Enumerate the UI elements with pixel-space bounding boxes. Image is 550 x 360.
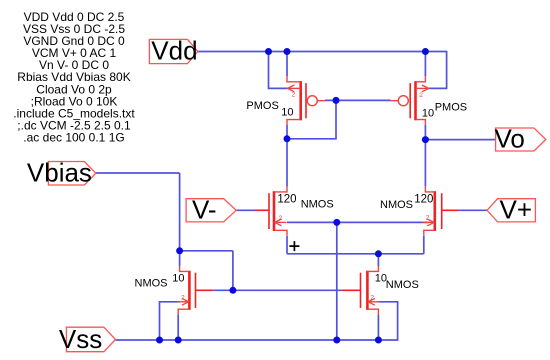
wire M6 bulk branch to Vss rail	[379, 302, 398, 341]
transistor M2 (NMOS 120 right) gate bar	[441, 193, 443, 229]
transistor M4 (PMOS 10 right) channel bar	[414, 81, 417, 120]
transistor M1 (NMOS 120 left) bulk lead	[275, 221, 287, 223]
svg-text:PMOS: PMOS	[246, 100, 278, 112]
wire tail drop to M6 drain	[377, 254, 379, 266]
transistor M1 (NMOS 120 left) gate lead	[255, 209, 269, 211]
junction bulk bus / Vss drop	[333, 219, 340, 226]
junction Vss rail / M5 bulk	[156, 337, 163, 344]
svg-text:2: 2	[279, 215, 283, 222]
transistor M4 (PMOS 10 right) source lead	[416, 76, 426, 82]
transistor M6 (NMOS 10 bottom-right) bulk lead	[368, 301, 380, 303]
wire M5 source drop to Vss rail	[177, 315, 179, 340]
transistor M3 (PMOS 10 left) bulk lead	[288, 87, 301, 89]
wire Vdd rail (top)	[198, 51, 447, 53]
net flag Vdd	[149, 36, 197, 66]
net flag Vbias	[27, 157, 96, 187]
net flag Vo	[495, 124, 546, 154]
transistor M1 (NMOS 120 left) source lead	[274, 230, 287, 236]
transistor M4 (PMOS 10 right) gate bar	[409, 83, 411, 118]
transistor M6 (NMOS 10 bottom-right) source lead	[367, 309, 378, 315]
transistor M2 (NMOS 120 right) bulk arrow	[427, 219, 434, 226]
transistor M1 (NMOS 120 left) drain lead	[274, 186, 287, 192]
transistor M4 (PMOS 10 right) gate bubble	[398, 96, 408, 106]
svg-text:2: 2	[419, 92, 423, 99]
wire V- to M1 gate	[236, 209, 255, 211]
wire gate-drain tie of M3 (diode connection)	[287, 100, 336, 138]
junction M3 drain / M1 drain	[284, 135, 291, 142]
svg-text:V-: V-	[192, 194, 217, 224]
wire PMOS gate bus (between bubbles)	[325, 99, 391, 101]
svg-text:2: 2	[292, 91, 296, 98]
transistor M6 (NMOS 10 bottom-right) gate bar	[360, 273, 362, 308]
svg-text:NMOS: NMOS	[135, 277, 168, 289]
junction PMOS gate bus / diode tie	[333, 97, 340, 104]
wire M5 gate-drain tie vertical	[232, 251, 234, 290]
wire M6 source drop to Vss rail	[377, 315, 379, 340]
wire Vbias vertical down	[179, 173, 181, 251]
transistor M3 (PMOS 10 left) drain lead	[287, 120, 301, 126]
svg-text:Vss: Vss	[59, 324, 102, 354]
transistor M2 (NMOS 120 right) drain lead	[425, 186, 434, 192]
transistor M1 (NMOS 120 left) channel bar	[273, 191, 276, 231]
svg-text:NMOS: NMOS	[301, 198, 334, 210]
net flag V-	[186, 194, 236, 224]
transistor M6 (NMOS 10 bottom-right) channel bar	[366, 271, 369, 310]
wire bulk bus drop to Vss rail	[336, 222, 338, 340]
plus marker at M1 source	[289, 241, 299, 251]
junction Vss rail / bulk bus	[333, 337, 340, 344]
wire output node to Vo flag	[425, 139, 495, 141]
junction Vdd rail / M4 source	[422, 48, 429, 55]
transistor M2 (NMOS 120 right) bulk lead	[422, 221, 434, 223]
net flag V+	[487, 194, 535, 224]
wire Vss rail (bottom)	[116, 339, 398, 341]
wire V+ to M2 gate	[459, 209, 487, 211]
wire M5 bulk branch	[160, 302, 181, 340]
transistor M6 (NMOS 10 bottom-right) drain lead	[367, 266, 378, 272]
wire right drain column M4-M2	[424, 125, 426, 186]
wire M4 source drop from Vdd rail	[424, 52, 426, 77]
transistor M3 (PMOS 10 left) gate bar	[305, 83, 307, 118]
wire Vbias flag to corner	[96, 172, 180, 174]
transistor M5 (NMOS 10 bottom-left) drain lead	[180, 266, 190, 272]
svg-text:120: 120	[277, 193, 296, 205]
wire M1 source drop	[286, 236, 288, 254]
transistor M1 (NMOS 120 left) gate bar	[268, 193, 270, 229]
transistor M1 (NMOS 120 left) bulk arrow	[275, 219, 282, 226]
wire Vdd rail right drop to M4 bulk	[429, 51, 447, 89]
transistor M3 (PMOS 10 left) source lead	[287, 76, 301, 82]
wire M2 source drop	[423, 236, 425, 254]
junction output node Vo	[422, 136, 429, 143]
svg-text:Vbias: Vbias	[27, 157, 92, 187]
svg-text:Vo: Vo	[495, 124, 525, 154]
transistor M5 (NMOS 10 bottom-left) source lead	[178, 309, 189, 315]
junction Vdd rail / M3 bulk	[265, 48, 272, 55]
junction Vss rail / M5 source	[175, 337, 182, 344]
svg-text:PMOS: PMOS	[435, 101, 467, 113]
transistor M3 (PMOS 10 left) channel bar	[299, 81, 302, 120]
wire tail node (sources of M1 M2)	[287, 253, 424, 255]
junction mirror gate node	[229, 287, 236, 294]
transistor M2 (NMOS 120 right) source lead	[424, 230, 435, 236]
transistor M4 (PMOS 10 right) gate lead	[391, 100, 399, 102]
svg-text:.ac dec 100 0.1 1G: .ac dec 100 0.1 1G	[23, 131, 124, 145]
svg-text:10: 10	[172, 273, 184, 285]
svg-text:NMOS: NMOS	[386, 279, 419, 291]
junction Vdd rail / M3 source	[284, 48, 291, 55]
svg-text:120: 120	[414, 194, 433, 206]
transistor M5 (NMOS 10 bottom-left) gate lead	[196, 289, 214, 291]
transistor M5 (NMOS 10 bottom-left) bulk arrow	[182, 298, 189, 305]
transistor M5 (NMOS 10 bottom-left) gate bar	[195, 273, 197, 308]
svg-text:2: 2	[426, 215, 430, 222]
transistor M3 (PMOS 10 left) gate lead	[317, 100, 325, 102]
junction Vss rail / M6 source	[375, 337, 382, 344]
net flag Vss	[59, 324, 116, 354]
transistor M2 (NMOS 120 right) gate lead	[442, 209, 460, 211]
transistor M6 (NMOS 10 bottom-right) bulk arrow	[368, 298, 375, 305]
wire M3 bulk branch from Vdd rail	[269, 51, 289, 89]
transistor M4 (PMOS 10 right) drain lead	[416, 120, 426, 126]
transistor M3 (PMOS 10 left) bulk arrow (pointing away from channel)	[288, 85, 295, 92]
svg-text:NMOS: NMOS	[380, 199, 413, 211]
transistor M5 (NMOS 10 bottom-left) bulk lead	[177, 301, 189, 303]
svg-text:10: 10	[281, 106, 293, 118]
transistor M4 (PMOS 10 right) bulk arrow (pointing away from channel)	[422, 85, 429, 92]
wire M3 source drop from Vdd rail	[286, 52, 288, 77]
transistor M3 (PMOS 10 left) gate bubble	[307, 96, 317, 106]
svg-text:10: 10	[422, 107, 434, 119]
svg-text:V+: V+	[500, 194, 533, 224]
wire left drain column M3-M1	[286, 125, 288, 186]
transistor M6 (NMOS 10 bottom-right) gate lead	[341, 289, 360, 291]
svg-text:Vdd: Vdd	[151, 36, 197, 66]
SPICE directives text block	[13, 10, 135, 145]
wire bottom mirror gate bus M5-M6	[213, 289, 341, 291]
junction Vbias node	[176, 247, 183, 254]
wire M5 gate-drain tie horizontal	[180, 250, 233, 252]
svg-text:2: 2	[181, 295, 185, 302]
transistor M2 (NMOS 120 right) channel bar	[433, 191, 436, 231]
junction tail node	[375, 250, 382, 257]
wire Vbias node to M5 drain	[179, 251, 181, 266]
svg-text:2: 2	[370, 295, 374, 302]
transistor M5 (NMOS 10 bottom-left) channel bar	[188, 271, 191, 310]
transistor M4 (PMOS 10 right) bulk lead	[416, 87, 429, 89]
wire NMOS bulk bus	[287, 221, 428, 223]
